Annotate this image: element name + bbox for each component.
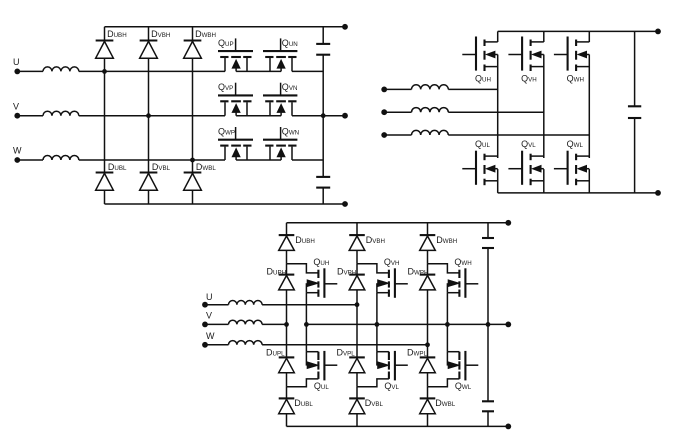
node input terminal V (c2) [381,109,387,115]
node terminal DC+ (c2) [655,29,661,35]
svg-text:QWN: QWN [282,126,299,136]
transistor QWH [554,37,589,84]
diode DVPH [337,266,365,290]
node junction QU source-bus (c3) [304,322,309,327]
wire midpoint bus (c3) [306,323,508,325]
diode DWPH [408,266,436,290]
svg-text:DVBH: DVBH [366,235,385,245]
svg-text:QVL: QVL [521,139,536,149]
wire leg column U (c3) [286,223,288,427]
svg-text:DUPL: DUPL [266,347,285,357]
node input terminal W (c3) [202,331,215,348]
transistor QVL [508,139,543,185]
wire drain branch QUH (c3) [287,264,319,273]
diode DUPL [266,347,294,372]
inductor LU (c3) [205,301,262,305]
transistor QVH (c3) [377,257,408,298]
svg-text:DWPL: DWPL [407,347,427,357]
svg-text:V: V [13,101,19,111]
diode DWBH [184,29,216,58]
node input terminal W (c1) [13,146,22,163]
node terminal DC- (c2) [655,190,661,196]
svg-text:DWBL: DWBL [435,398,455,408]
wire column U (c1) [104,27,106,204]
wire top rail (c2) [498,30,658,32]
wire cap branch (c2) [634,31,636,193]
inductor LV (c2) [384,108,544,113]
capacitor C1L (c1) [316,177,330,188]
diode DUPH [267,266,295,290]
transistor QWP [218,126,253,160]
node terminal mid (c3) [505,322,511,328]
wire column W (c2) [588,31,590,193]
wire source QWH to bus (c3) [446,293,448,325]
svg-text:QWL: QWL [455,381,472,391]
svg-text:U: U [206,292,213,302]
svg-text:DWPH: DWPH [408,266,429,276]
transistor QVH [508,37,543,84]
svg-text:QUH: QUH [313,257,329,267]
node terminal DC- (c3) [505,424,511,430]
svg-text:DVPL: DVPL [337,347,356,357]
transistor QVL (c3) [377,351,408,391]
diode DVBH [349,235,385,250]
transistor QUL [462,139,497,185]
wire column V (c1) [148,27,150,204]
svg-text:QUN: QUN [282,38,298,48]
wire leg column V (c3) [356,223,358,427]
diode DWPL [407,347,435,372]
svg-text:QUP: QUP [218,38,234,48]
svg-text:W: W [13,146,22,156]
svg-text:QUL: QUL [314,381,329,391]
transistor QWH (c3) [447,257,478,298]
node input terminal U (c3) [202,292,212,308]
svg-text:QVH: QVH [384,257,400,267]
svg-text:QVH: QVH [521,73,537,83]
inductor LU (c1) [17,67,104,71]
transistor QUL (c3) [306,351,337,391]
transistor QUH [462,37,497,84]
inductor LU (c2) [384,85,498,90]
wire column W (c1) [192,27,194,204]
svg-text:QVP: QVP [218,82,233,92]
wire source QVL from bus (c3) [376,324,378,351]
node junction V (c1) [146,113,151,118]
node input terminal V (c3) [202,310,212,327]
wire midpoint bus (c1) [322,27,324,204]
inductor LW (c3) [205,341,262,345]
diode DVPL [337,347,365,372]
transistor QVP [218,82,253,116]
wire midpoint out (c1) [323,115,345,117]
svg-text:DUBH: DUBH [107,29,127,39]
svg-text:QWH: QWH [454,257,471,267]
svg-text:DUPH: DUPH [267,266,287,276]
wire phase U (c1) [105,70,324,72]
svg-text:QWP: QWP [218,126,235,136]
svg-text:W: W [206,331,215,341]
diode DVBL [349,398,383,414]
node bus junction (c1) [321,113,326,118]
wire source QWL from bus (c3) [446,324,448,351]
node junction W-leg3 (c3) [425,342,430,347]
transistor QWL (c3) [447,351,478,391]
svg-text:V: V [206,310,212,320]
wire top rail (c1) [105,26,346,28]
wire column U (c2) [497,31,499,193]
svg-text:DUBH: DUBH [295,235,315,245]
node junction V-leg1 (c3) [284,322,289,327]
wire phase W (c1) [193,159,324,161]
wire phase V to leg1 (c3) [262,323,286,325]
svg-text:QVN: QVN [282,82,298,92]
capacitor C3L (c3) [482,401,494,411]
wire bottom rail (c1) [105,203,346,205]
wire phase V (c1) [149,115,324,117]
svg-text:QWL: QWL [567,139,584,149]
wire source QUH to bus (c3) [305,293,307,325]
transistor QUN [263,38,298,72]
svg-text:QUH: QUH [475,73,491,83]
svg-text:DVBH: DVBH [151,29,170,39]
transistor QUP [218,38,253,72]
transistor QUH (c3) [306,257,337,298]
svg-text:QUL: QUL [475,139,490,149]
node junction QV source-bus (c3) [375,322,380,327]
node terminal DC+ (c3) [505,220,511,226]
inductor LW (c2) [384,130,589,135]
node input terminal W (c2) [381,132,387,138]
diode DWBL [420,398,456,414]
inductor LW (c1) [17,156,192,160]
node junction U-leg2 (c3) [355,302,360,307]
node terminal mid (c1) [342,113,348,119]
svg-text:DVPH: DVPH [337,266,356,276]
node cap-bus junction (c3) [486,322,491,327]
svg-text:DUBL: DUBL [108,162,127,172]
node input terminal U (c2) [381,87,387,93]
svg-text:DVBL: DVBL [365,398,384,408]
wire bottom rail (c3) [287,425,509,427]
svg-text:DWBH: DWBH [436,235,457,245]
wire phase W to leg3 (c3) [262,344,427,346]
node junction QW source-bus (c3) [445,322,450,327]
node terminal DC- (c1) [342,201,348,207]
transistor QVN [263,82,297,116]
svg-text:U: U [13,57,20,67]
wire top rail (c3) [287,222,509,224]
transistor QWN [263,126,299,160]
inductor LV (c3) [205,320,262,324]
node junction U (c1) [102,69,107,74]
svg-text:DWBL: DWBL [196,162,216,172]
svg-text:DUBL: DUBL [294,398,313,408]
wire bottom rail (c2) [498,192,658,194]
wire phase U to leg2 (c3) [262,304,357,306]
wire drain branch QVL (c3) [357,379,389,387]
wire drain branch QUL (c3) [287,379,319,387]
capacitor C3H (c3) [482,238,494,248]
svg-text:QWH: QWH [567,73,584,83]
svg-text:QVL: QVL [384,381,399,391]
node junction W (c1) [190,158,195,163]
wire drain branch QWL (c3) [428,379,460,387]
diode DWBH [420,235,458,250]
svg-text:DVBL: DVBL [152,162,171,172]
diode DUBL [279,398,314,414]
diode DVBL [140,162,171,190]
inductor LV (c1) [17,111,148,115]
capacitor C1H (c1) [316,44,330,55]
capacitor C2 (c2) [628,106,641,118]
wire drain branch QVH (c3) [357,264,389,273]
transistor QWL [554,139,589,185]
diode DVBH [140,29,171,58]
wire drain branch QWH (c3) [428,264,460,273]
diode DUBL [96,162,127,190]
node terminal DC+ (c1) [342,24,348,30]
diode DUBH [279,235,315,250]
wire leg column W (c3) [427,223,429,427]
wire cap branch (c3) [487,223,489,427]
wire source QUL from bus (c3) [305,324,307,351]
diode DWBL [184,162,217,190]
wire column V (c2) [543,31,545,193]
node input terminal V (c1) [13,101,20,118]
wire source QVH to bus (c3) [376,293,378,325]
diode DUBH [96,29,127,58]
svg-text:DWBH: DWBH [195,29,216,39]
node input terminal U (c1) [13,57,20,74]
